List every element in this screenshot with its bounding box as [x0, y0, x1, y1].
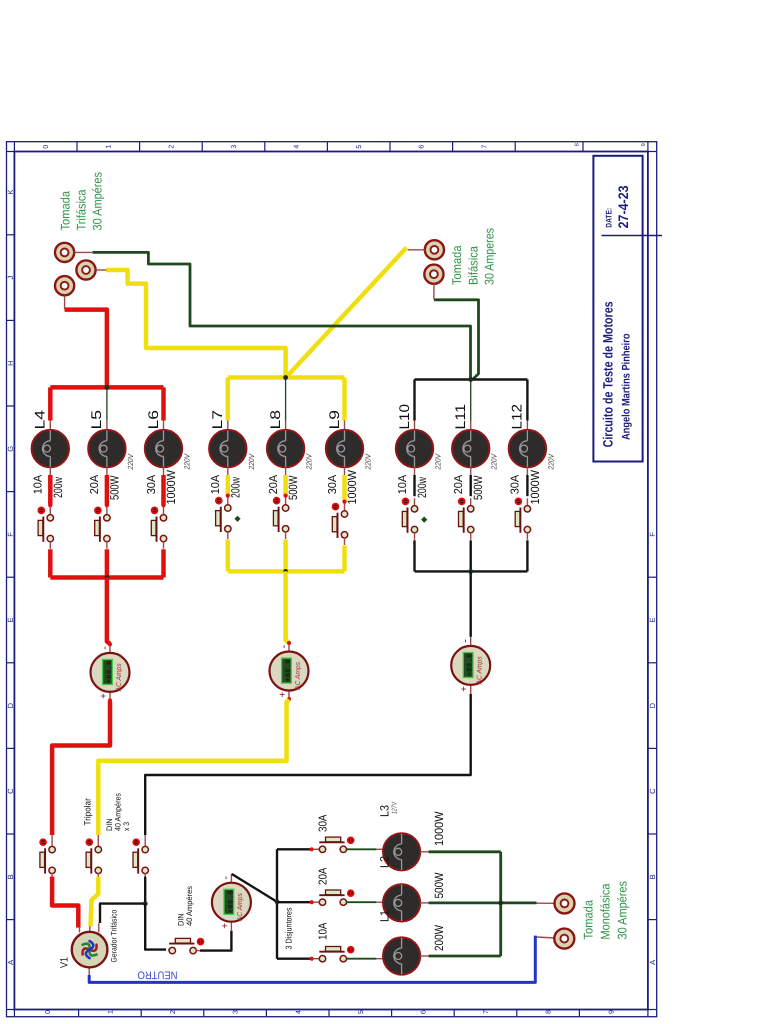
svg-text:L5: L5 — [88, 410, 104, 430]
svg-text:200w: 200w — [415, 477, 429, 498]
svg-text:10A: 10A — [210, 474, 222, 494]
svg-text:6: 6 — [421, 1010, 428, 1014]
svg-text:L1: L1 — [378, 910, 392, 922]
svg-text:9: 9 — [641, 143, 647, 146]
svg-text:2: 2 — [168, 145, 175, 149]
svg-text:A: A — [648, 960, 657, 965]
svg-text:C: C — [6, 788, 15, 794]
svg-text:K: K — [6, 189, 15, 194]
svg-text:V1: V1 — [59, 957, 71, 968]
svg-text:F: F — [648, 532, 657, 537]
svg-text:L8: L8 — [267, 410, 283, 430]
svg-text:30A: 30A — [146, 474, 158, 494]
svg-text:220V: 220V — [183, 453, 192, 470]
svg-text:4: 4 — [295, 1010, 302, 1014]
svg-text:B: B — [648, 874, 657, 879]
svg-text:10A: 10A — [33, 474, 45, 494]
svg-text:30 Amperes: 30 Amperes — [483, 228, 497, 285]
svg-text:L6: L6 — [145, 410, 161, 430]
svg-text:+88.8: +88.8 — [106, 661, 114, 684]
svg-text:D: D — [648, 702, 657, 708]
svg-text:+: + — [220, 923, 231, 929]
svg-text:4: 4 — [294, 145, 301, 149]
svg-text:+88.8: +88.8 — [467, 654, 475, 677]
svg-text:L10: L10 — [396, 404, 412, 430]
svg-text:20A: 20A — [268, 474, 280, 494]
svg-text:500W: 500W — [432, 872, 446, 899]
svg-text:10A: 10A — [397, 474, 409, 494]
svg-text:500W: 500W — [471, 475, 485, 500]
svg-text:D: D — [6, 702, 15, 708]
svg-text:C: C — [648, 788, 657, 794]
svg-text:0: 0 — [43, 145, 50, 149]
svg-text:L12: L12 — [509, 404, 525, 430]
svg-text:220V: 220V — [546, 453, 555, 470]
svg-text:Tomada: Tomada — [450, 246, 464, 286]
svg-text:8: 8 — [546, 1010, 553, 1014]
svg-text:500W: 500W — [286, 475, 300, 500]
svg-text:220V: 220V — [305, 453, 314, 470]
svg-text:7: 7 — [483, 1010, 490, 1014]
svg-text:Bifásica: Bifásica — [466, 246, 480, 285]
svg-text:8: 8 — [575, 143, 581, 146]
svg-text:B: B — [6, 874, 15, 879]
svg-text:30A: 30A — [327, 474, 339, 494]
svg-text:200w: 200w — [228, 477, 242, 498]
svg-text:J: J — [6, 275, 15, 279]
svg-text:1000W: 1000W — [345, 469, 359, 504]
svg-text:+: + — [277, 692, 288, 698]
svg-text:Trifásica: Trifásica — [75, 190, 89, 231]
svg-text:30A: 30A — [510, 474, 522, 494]
svg-text:x 3: x 3 — [122, 822, 131, 831]
svg-text:L11: L11 — [452, 404, 468, 430]
svg-text:1: 1 — [106, 145, 113, 149]
svg-text:AC Amps: AC Amps — [116, 663, 123, 692]
svg-text:-: - — [99, 646, 111, 650]
svg-text:L4: L4 — [32, 410, 48, 430]
svg-text:NEUTRO: NEUTRO — [137, 969, 177, 981]
svg-text:220V: 220V — [490, 453, 499, 470]
svg-text:3: 3 — [231, 145, 238, 149]
svg-text:AC Amps: AC Amps — [477, 656, 484, 685]
svg-text:Tripolar: Tripolar — [83, 798, 93, 825]
svg-text:Tomada: Tomada — [58, 191, 72, 231]
svg-text:L2: L2 — [378, 856, 392, 868]
svg-text:10A: 10A — [318, 922, 330, 940]
svg-text:5: 5 — [356, 145, 363, 149]
svg-text:G: G — [6, 446, 15, 452]
svg-text:Angelo Martins Pinheiro: Angelo Martins Pinheiro — [621, 333, 633, 440]
svg-text:L9: L9 — [326, 410, 342, 430]
svg-text:27-4-23: 27-4-23 — [616, 185, 631, 228]
svg-text:9: 9 — [608, 1010, 615, 1014]
svg-text:20A: 20A — [453, 474, 465, 494]
svg-text:E: E — [6, 617, 15, 622]
svg-text:E: E — [648, 617, 657, 622]
svg-text:AC Amps: AC Amps — [295, 662, 302, 691]
svg-text:F: F — [6, 532, 15, 537]
svg-text:L7: L7 — [209, 410, 225, 430]
svg-text:A: A — [6, 960, 15, 965]
svg-text:AC Amps: AC Amps — [237, 893, 244, 922]
svg-text:+: + — [459, 686, 470, 692]
svg-text:30A: 30A — [318, 814, 330, 832]
svg-text:220V: 220V — [364, 453, 373, 470]
svg-text:-: - — [460, 639, 472, 643]
svg-text:30 Ampéres: 30 Ampéres — [616, 881, 630, 940]
svg-text:500W: 500W — [107, 475, 121, 500]
svg-text:40 Ampéres: 40 Ampéres — [185, 886, 194, 926]
svg-text:3: 3 — [233, 1010, 240, 1014]
svg-text:Tomada: Tomada — [581, 900, 595, 940]
svg-text:+88.8: +88.8 — [227, 891, 235, 914]
svg-text:20A: 20A — [89, 474, 101, 494]
svg-text:220V: 220V — [126, 453, 135, 470]
svg-text:1000W: 1000W — [528, 469, 542, 504]
svg-text:DATE:: DATE: — [605, 208, 614, 228]
svg-text:-: - — [220, 876, 232, 880]
svg-text:200w: 200w — [51, 477, 65, 498]
svg-text:Gerador Trifásico: Gerador Trifásico — [110, 909, 119, 962]
svg-text:5: 5 — [358, 1010, 365, 1014]
svg-text:20A: 20A — [318, 867, 330, 885]
svg-text:7: 7 — [481, 145, 488, 149]
svg-text:220V: 220V — [247, 453, 256, 470]
svg-text:H: H — [6, 360, 15, 365]
svg-text:0: 0 — [45, 1010, 52, 1014]
svg-text:L3: L3 — [378, 805, 392, 817]
svg-text:127V: 127V — [392, 801, 399, 814]
svg-text:1000W: 1000W — [432, 811, 446, 846]
svg-text:1: 1 — [108, 1010, 115, 1014]
svg-text:+: + — [98, 693, 109, 699]
svg-text:Monofásica: Monofásica — [599, 884, 613, 940]
svg-text:6: 6 — [419, 145, 426, 149]
svg-text:+88.8: +88.8 — [285, 659, 293, 682]
svg-text:200W: 200W — [432, 924, 446, 951]
svg-text:Circuito de Teste de Motores: Circuito de Teste de Motores — [601, 301, 616, 447]
svg-text:-: - — [278, 644, 290, 648]
svg-text:1000W: 1000W — [164, 469, 178, 504]
svg-text:2: 2 — [170, 1010, 177, 1014]
svg-text:220V: 220V — [434, 453, 443, 470]
svg-text:30 Ampéres: 30 Ampéres — [91, 172, 105, 231]
svg-text:3 Disjuntores: 3 Disjuntores — [284, 908, 294, 950]
